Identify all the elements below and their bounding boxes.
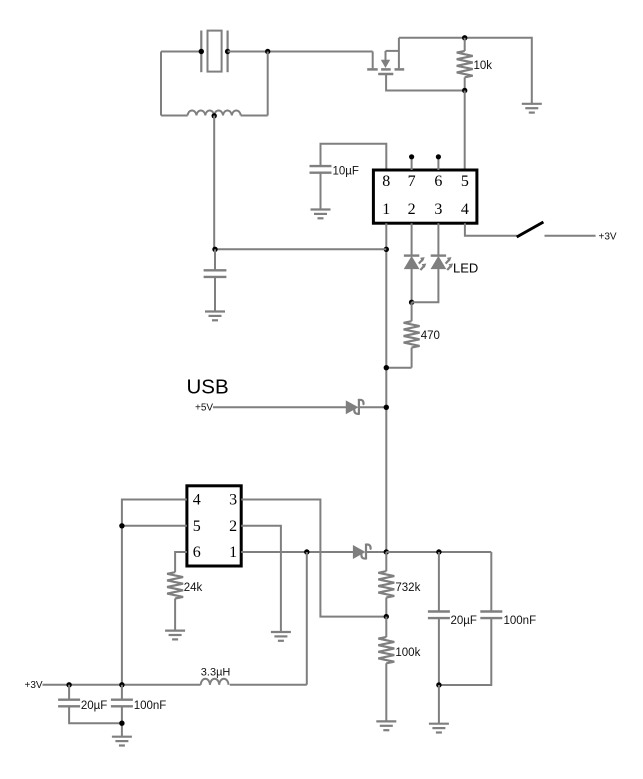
svg-text:+5V: +5V <box>195 403 213 414</box>
IC U1 pin 7 stub <box>411 158 413 170</box>
svg-text:+3V: +3V <box>599 231 617 242</box>
wire +5V to D1 <box>213 406 346 408</box>
wire C1 top to IC1 pin 8 <box>321 144 387 170</box>
node main/divider top <box>384 549 389 554</box>
wire U2 pin 2 to ground <box>241 526 281 632</box>
wire LED2 down and left to node <box>412 269 439 303</box>
IC U1 pin 6 terminal <box>436 154 441 159</box>
label C4 100nF value <box>134 700 167 712</box>
node crystal left pin <box>199 49 204 54</box>
resistor R5 24k <box>167 572 183 630</box>
node L1 center tap <box>212 113 217 118</box>
node C3/C4 bottom <box>119 721 124 726</box>
label C1 10uF value <box>333 166 359 178</box>
wire IC1 pin 2 to LED1 <box>411 223 413 255</box>
wire crystal right pin to tank junction and MOSFET drain <box>228 51 373 53</box>
svg-text:LED: LED <box>453 261 478 276</box>
wire U2 pin 1 right <box>241 551 353 553</box>
label U2 pin 5 <box>193 518 201 535</box>
svg-text:USB: USB <box>187 376 229 399</box>
wire D2 to main node <box>367 551 386 553</box>
wire L1 tap node to C2 <box>214 249 216 270</box>
svg-text:10µF: 10µF <box>333 166 359 178</box>
label U2 pin 6 <box>193 544 201 561</box>
LED D3 left <box>404 256 426 270</box>
transistor Q1 drain bar <box>367 68 378 71</box>
wire tank right leg <box>267 52 269 116</box>
resistor R2 470 <box>404 302 420 367</box>
transistor Q1 source bar <box>395 68 405 71</box>
capacitor C2 tank <box>204 270 227 277</box>
label R1 10k value <box>474 60 493 72</box>
ground at top right <box>522 104 542 113</box>
label C3 20uF value <box>81 700 107 712</box>
wire tank bottom left <box>161 115 188 117</box>
svg-text:6: 6 <box>193 544 201 561</box>
svg-text:3: 3 <box>229 492 237 509</box>
svg-text:4: 4 <box>461 201 469 218</box>
wire +3V rail <box>43 684 201 686</box>
node divider mid <box>384 614 389 619</box>
resistor R1 10k <box>457 38 473 91</box>
label LED <box>453 261 478 276</box>
node top rail / R1 top <box>462 35 467 40</box>
label R2 470 value <box>421 330 440 342</box>
svg-text:3.3µH: 3.3µH <box>201 667 231 679</box>
label U1 pin 6 <box>434 173 442 190</box>
capacitor C1 10uF <box>310 166 332 173</box>
label U1 pin 2 <box>408 201 416 218</box>
IC U1 pin 6 stub <box>437 158 439 170</box>
label C6 100nF value <box>504 615 537 627</box>
LED D4 right <box>431 256 453 270</box>
transistor Q1 gate plate <box>378 73 393 76</box>
wire C1 bottom to ground <box>320 173 322 210</box>
resistor R4 100k <box>378 617 394 722</box>
wire crystal top from left leg to crystal <box>161 51 201 53</box>
inductor L2 3.3uH <box>201 679 229 685</box>
wire IC1 pin 1 down main net <box>385 223 387 552</box>
ground under right caps <box>429 724 449 733</box>
wire U2 pin 4 left and down rail <box>122 500 187 685</box>
svg-text:100k: 100k <box>395 647 420 659</box>
svg-text:10k: 10k <box>474 60 493 72</box>
wire D1 to main net <box>360 406 386 408</box>
node B pin1/tank-cap junction <box>384 247 389 252</box>
wire U2 pin 6 to R5 <box>175 552 187 572</box>
inductor L1 tank <box>188 111 241 116</box>
label U1 pin 4 <box>461 201 469 218</box>
wire tank bottom right <box>241 115 268 117</box>
wire Q1 gate to 10k bottom node <box>386 75 465 91</box>
wire rail after L2 <box>230 684 307 686</box>
transistor Q1 drain lead <box>372 52 374 69</box>
IC U1 body <box>373 170 477 223</box>
capacitor C3 20uF left <box>58 685 122 723</box>
wire L1 tap down to node B <box>213 116 215 250</box>
svg-text:5: 5 <box>461 173 469 190</box>
wire node to IC1 pin 5 <box>464 91 466 171</box>
crystal X1 <box>201 31 227 73</box>
diode D2 schottky <box>353 544 370 560</box>
wire IC1 pin 4 to switch <box>465 223 517 236</box>
label U1 pin 7 <box>408 173 416 190</box>
switch SW1 lever <box>517 222 544 237</box>
svg-text:100nF: 100nF <box>504 615 537 627</box>
wire LED1 cathode down <box>411 269 413 303</box>
node C5 top <box>436 549 441 554</box>
svg-text:4: 4 <box>193 492 201 509</box>
ground under C2 <box>205 312 225 321</box>
wire crystal-tank left leg <box>160 52 162 116</box>
label R3 732k value <box>395 582 420 594</box>
label L2 3.3uH value <box>201 667 231 679</box>
transistor Q1 body arrow <box>382 51 390 67</box>
node pin1/+3V riser <box>304 549 309 554</box>
svg-text:6: 6 <box>434 173 442 190</box>
label +5V <box>195 403 213 414</box>
ground under C4 <box>112 737 132 746</box>
label R4 100k value <box>395 647 420 659</box>
svg-text:470: 470 <box>421 330 440 342</box>
svg-text:2: 2 <box>229 518 237 535</box>
svg-text:1: 1 <box>382 201 390 218</box>
node rail/C4 <box>119 682 124 687</box>
svg-text:1: 1 <box>229 544 237 561</box>
svg-text:20µF: 20µF <box>81 700 107 712</box>
svg-text:24k: 24k <box>184 582 203 594</box>
resistor R3 732k <box>378 552 394 617</box>
wire Q1 body to source link <box>386 50 399 52</box>
capacitor C6 100nF right <box>439 552 502 685</box>
label R5 24k value <box>184 582 203 594</box>
node crystal right pin <box>225 49 230 54</box>
label U2 pin 4 <box>193 492 201 509</box>
IC U2 body <box>187 486 241 566</box>
label U1 pin 1 <box>382 201 390 218</box>
label C5 20uF value <box>451 615 477 627</box>
node R2/main net <box>384 365 389 370</box>
label U2 pin 1 <box>229 544 237 561</box>
node C2 top junction <box>212 247 217 252</box>
ground under R4 <box>376 721 396 730</box>
label U2 pin 3 <box>229 492 237 509</box>
wire IC1 pin 3 to LED2 <box>437 223 439 255</box>
wire top rail to ground <box>399 38 532 104</box>
wire U2 pin 3 to divider node <box>241 500 386 617</box>
label U1 pin 3 <box>434 201 442 218</box>
svg-text:5: 5 <box>193 518 201 535</box>
ground under pin 2 wire <box>271 632 291 641</box>
svg-text:7: 7 <box>408 173 416 190</box>
node C5/C6 bottom <box>436 682 441 687</box>
svg-text:100nF: 100nF <box>134 700 167 712</box>
wire C2 to ground <box>214 277 216 312</box>
ground under R5 <box>165 631 185 640</box>
node +5V/main net <box>384 405 389 410</box>
wire +3V riser <box>306 552 308 685</box>
wire C5 bottom to ground <box>438 685 440 724</box>
transistor Q1 body bar <box>381 68 391 71</box>
svg-text:+3V: +3V <box>25 680 43 691</box>
svg-text:20µF: 20µF <box>451 615 477 627</box>
node rail/C3 <box>66 682 71 687</box>
label +3V left <box>25 680 43 691</box>
svg-text:732k: 732k <box>395 582 420 594</box>
wire R2 bottom to main net <box>386 367 411 369</box>
ground under C1 <box>311 210 331 219</box>
node pin5/left vertical <box>119 523 124 528</box>
label U2 pin 2 <box>229 518 237 535</box>
svg-text:8: 8 <box>382 173 390 190</box>
node R1 bottom / gate / pin5 junction <box>462 88 467 93</box>
label +3V right <box>599 231 617 242</box>
svg-text:3: 3 <box>434 201 442 218</box>
diode D1 schottky <box>346 399 363 415</box>
wire node B to C2 <box>215 248 386 250</box>
wire node to right caps <box>386 551 491 553</box>
capacitor C4 100nF left <box>111 685 133 737</box>
capacitor C5 20uF right <box>428 552 450 685</box>
node LED junction <box>409 300 414 305</box>
label U1 pin 8 <box>382 173 390 190</box>
label U1 pin 5 <box>461 173 469 190</box>
IC U1 pin 7 terminal <box>409 154 414 159</box>
node A tank top junction <box>265 49 270 54</box>
svg-text:2: 2 <box>408 201 416 218</box>
wire U2 pin 5 left <box>122 525 187 527</box>
label USB <box>187 376 229 399</box>
transistor Q1 source lead <box>398 38 400 69</box>
wire switch to +3V <box>545 235 596 237</box>
